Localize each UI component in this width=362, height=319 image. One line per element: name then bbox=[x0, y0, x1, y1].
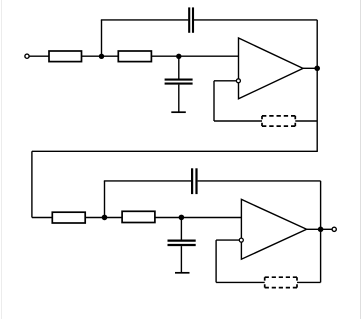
wire node B down to C2 bbox=[178, 56, 180, 78]
dashed box Z2 bbox=[265, 277, 297, 287]
input terminal circle bbox=[25, 54, 29, 58]
wire interstage vertical bbox=[31, 151, 33, 217]
wire feedback 2 left down bbox=[215, 240, 217, 282]
wire top left to C3 bbox=[104, 180, 191, 182]
wire op-amp 2 output bbox=[307, 228, 321, 230]
capacitor C3 bbox=[192, 168, 196, 194]
capacitor C2 bbox=[165, 80, 193, 84]
wire node A up bbox=[101, 20, 103, 56]
wire R4 to op-amp 2 input bbox=[155, 217, 242, 219]
wire feedback left down bbox=[213, 81, 215, 121]
ground bbox=[175, 272, 190, 274]
wire R1 to R2 through node A bbox=[82, 55, 119, 57]
wire input to R1 bbox=[29, 55, 49, 57]
resistor R4 bbox=[122, 211, 155, 222]
wire feedback bottom to dashed box bbox=[214, 120, 262, 122]
capacitor C4 bbox=[168, 241, 196, 245]
wire op-amp output bbox=[303, 67, 317, 69]
capacitor C1 bbox=[189, 7, 193, 32]
ground bbox=[171, 111, 186, 113]
wire C1 to output column bbox=[194, 19, 317, 21]
output terminal circle bbox=[332, 227, 336, 231]
resistor R3 bbox=[52, 212, 85, 223]
wire R2 to op-amp input bbox=[151, 55, 238, 57]
wire stage2 input to R3 bbox=[32, 217, 52, 219]
wire node C up bbox=[104, 181, 106, 218]
node output stage 1 dot bbox=[314, 66, 320, 72]
resistor R1 bbox=[49, 51, 82, 62]
resistor R2 bbox=[118, 51, 151, 62]
op-amp U1 bbox=[239, 38, 304, 99]
wire node D down to C4 bbox=[180, 217, 182, 239]
op-amp U2 bbox=[241, 199, 306, 259]
node C junction dot bbox=[102, 215, 108, 221]
wire top left to C1 bbox=[101, 19, 188, 21]
node D junction dot bbox=[179, 215, 185, 221]
dashed box Z1 bbox=[262, 116, 295, 126]
node B junction dot bbox=[176, 54, 181, 59]
wire dashed box to output column bbox=[295, 120, 317, 122]
wire bubble to feedback left bbox=[214, 80, 236, 82]
wire interstage horizontal bbox=[32, 150, 318, 152]
wire dashed box 2 to output column bbox=[297, 281, 321, 283]
wire feedback 2 bottom to dashed box bbox=[216, 281, 265, 283]
wire to output terminal bbox=[321, 228, 332, 230]
wire R3 to R4 through node C bbox=[85, 217, 122, 219]
wire output column stage 2 bbox=[320, 181, 322, 283]
wire C3 to output column stage 2 bbox=[198, 180, 321, 182]
wire C2 to ground bbox=[178, 85, 180, 113]
wire bubble 2 to feedback left bbox=[216, 239, 239, 241]
op-amp U2 non-inverting input bubble bbox=[239, 238, 243, 242]
node A junction dot bbox=[99, 54, 104, 59]
op-amp U1 non-inverting input bubble bbox=[236, 79, 240, 83]
wire output column stage 1 bbox=[316, 20, 318, 151]
node output stage 2 dot bbox=[318, 227, 324, 233]
wire C4 to ground bbox=[180, 246, 182, 273]
